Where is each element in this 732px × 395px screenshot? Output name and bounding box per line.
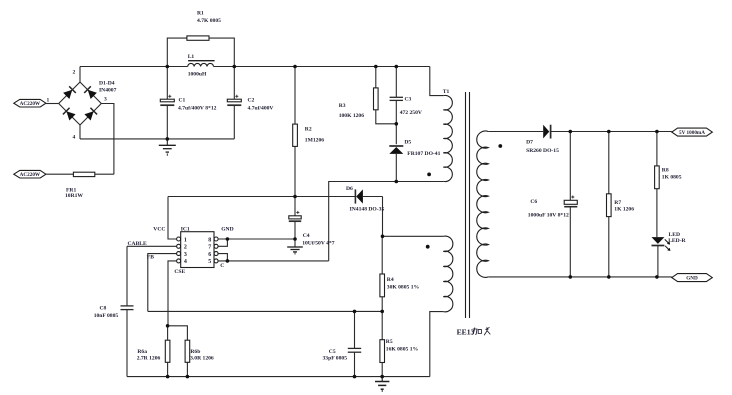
svg-text:10Uf/50V 4*7: 10Uf/50V 4*7: [302, 241, 335, 247]
svg-text:C3: C3: [405, 97, 412, 103]
svg-text:3.0R 1206: 3.0R 1206: [190, 355, 214, 361]
svg-text:L1: L1: [188, 54, 195, 60]
resistor R1: [167, 11, 234, 67]
resistor R4: [380, 236, 420, 311]
wire secondary bottom rail: [488, 276, 672, 278]
svg-text:5: 5: [208, 259, 211, 265]
svg-text:1: 1: [47, 98, 50, 104]
wire primary ground rail: [127, 376, 430, 378]
wire switch node: [329, 182, 444, 261]
svg-text:R5: R5: [386, 339, 393, 345]
svg-text:VCC: VCC: [153, 227, 165, 233]
svg-text:T1: T1: [443, 89, 450, 95]
ground (C4): [287, 247, 303, 255]
svg-text:1M1206: 1M1206: [305, 137, 324, 143]
svg-text:3: 3: [104, 96, 107, 102]
svg-text:R8: R8: [662, 167, 669, 173]
ground (R5): [375, 377, 389, 392]
resistor R2: [293, 67, 325, 197]
capacitor C3: [390, 67, 422, 145]
svg-text:10nF 0805: 10nF 0805: [94, 313, 119, 319]
capacitor C8: [94, 246, 134, 376]
wire pin3 FB: [148, 254, 177, 312]
svg-text:CSE: CSE: [174, 269, 185, 275]
wire bridge plus stub: [79, 67, 81, 83]
svg-text:4.7K 0805: 4.7K 0805: [197, 18, 221, 24]
svg-text:1000uF 10V 8*12: 1000uF 10V 8*12: [528, 212, 569, 218]
svg-text:4: 4: [73, 134, 76, 140]
svg-text:16K 0805 1%: 16K 0805 1%: [386, 346, 419, 352]
svg-text:D5: D5: [404, 140, 411, 146]
svg-text:1K 1206: 1K 1206: [614, 207, 634, 213]
wire negative rail: [80, 138, 234, 140]
svg-text:1000uH: 1000uH: [188, 71, 207, 77]
wire FB rail: [148, 310, 382, 312]
ground (C1): [159, 139, 176, 156]
svg-text:C5: C5: [329, 349, 336, 355]
diode D5: [389, 140, 440, 182]
IC U1: [153, 227, 233, 275]
svg-text:R7: R7: [614, 200, 621, 206]
svg-text:D1-D4: D1-D4: [99, 81, 115, 87]
svg-text:R1: R1: [197, 11, 204, 17]
svg-text:IN4007: IN4007: [99, 88, 117, 94]
wire pin5 C node: [218, 260, 329, 262]
resistor R7: [607, 132, 635, 277]
svg-text:6: 6: [208, 252, 211, 258]
svg-text:AC220W: AC220W: [20, 101, 41, 107]
wire secondary top rail: [488, 131, 543, 133]
svg-text:4: 4: [184, 259, 187, 265]
transformer T1 aux winding: [383, 236, 453, 377]
resistor R5: [380, 311, 419, 376]
svg-text:C: C: [220, 263, 224, 269]
svg-text:FR107 DO-41: FR107 DO-41: [407, 151, 440, 157]
svg-text:1: 1: [184, 237, 187, 243]
svg-text:472 250V: 472 250V: [400, 110, 422, 116]
svg-text:R4: R4: [387, 277, 394, 283]
svg-text:1K 0805: 1K 0805: [662, 175, 682, 181]
svg-text:33pF 0805: 33pF 0805: [323, 356, 348, 362]
svg-text:C8: C8: [100, 305, 107, 311]
LED LED-R: [652, 232, 687, 277]
svg-text:CABLE: CABLE: [128, 241, 148, 247]
inductor L1: [188, 54, 215, 77]
svg-text:EE13: EE13: [457, 328, 475, 337]
transformer T1 primary: [427, 67, 452, 182]
svg-text:3: 3: [184, 252, 187, 258]
wire bridge minus stub: [79, 125, 81, 139]
svg-text:LED-R: LED-R: [668, 238, 686, 244]
svg-text:R3: R3: [339, 103, 346, 109]
svg-text:4.7uf/400V: 4.7uf/400V: [248, 105, 274, 111]
connector GND output: [672, 274, 713, 282]
transformer T1 secondary: [477, 131, 502, 277]
resistor R3: [339, 67, 397, 124]
resistor R8: [655, 132, 682, 238]
capacitor C1: [160, 67, 216, 139]
svg-text:GND: GND: [221, 227, 233, 233]
svg-text:7: 7: [208, 245, 211, 251]
svg-text:R6a: R6a: [137, 349, 147, 355]
svg-text:C4: C4: [303, 233, 310, 239]
capacitor C6: [528, 132, 578, 277]
wire pin1 VCC: [168, 197, 177, 240]
wire pin8 GND: [218, 238, 295, 240]
svg-text:2: 2: [73, 70, 76, 76]
svg-text:30K 0805 1%: 30K 0805 1%: [387, 284, 420, 290]
bridge D1-D4: [59, 70, 117, 141]
capacitor C5: [323, 311, 362, 376]
wire top rail: [80, 66, 188, 68]
svg-text:IN4148 DO-35: IN4148 DO-35: [350, 206, 385, 212]
capacitor C4: [289, 197, 335, 248]
svg-text:C2: C2: [248, 97, 255, 103]
svg-text:5V 1000mA: 5V 1000mA: [679, 130, 705, 136]
svg-text:R6b: R6b: [190, 349, 200, 355]
svg-text:GND: GND: [686, 276, 698, 282]
wire pin2 CABLE: [127, 245, 177, 247]
diode D7: [526, 125, 672, 155]
svg-text:2.7R 1206: 2.7R 1206: [137, 355, 161, 361]
svg-text:IC1: IC1: [181, 227, 190, 233]
diode D6: [346, 186, 384, 236]
svg-text:10R1W: 10R1W: [65, 193, 83, 199]
svg-text:2: 2: [184, 245, 187, 251]
svg-text:100K 1206: 100K 1206: [339, 113, 365, 119]
svg-text:C1: C1: [179, 97, 186, 103]
svg-text:4.7uf/400V 8*12: 4.7uf/400V 8*12: [178, 105, 217, 111]
svg-text:D6: D6: [346, 186, 353, 192]
connector AC220W (top input): [14, 99, 46, 107]
wire pin4 CSE: [168, 261, 177, 326]
wire VCC node: [168, 196, 355, 198]
resistor FR1: [46, 172, 114, 199]
svg-text:AC220W: AC220W: [20, 172, 41, 178]
svg-text:D7: D7: [526, 140, 533, 146]
wire AC1 to bridge: [46, 103, 59, 105]
svg-text:FB: FB: [147, 255, 154, 261]
connector 5V 1000mA: [672, 128, 713, 136]
svg-text:R2: R2: [305, 127, 312, 133]
svg-text:8: 8: [208, 237, 211, 243]
wire bridge AC2 leg: [101, 104, 114, 175]
transformer core: [466, 92, 470, 318]
svg-text:C6: C6: [530, 199, 537, 205]
resistor R6a: [137, 326, 170, 377]
capacitor C2: [227, 67, 273, 139]
resistor R6b: [185, 340, 214, 376]
wire CSE branch: [168, 326, 187, 340]
wire pin7 tie: [218, 239, 227, 246]
connector AC220W (bottom input): [14, 170, 46, 178]
svg-text:SR260 DO-15: SR260 DO-15: [526, 148, 559, 154]
wire pin6 tie: [218, 254, 227, 261]
